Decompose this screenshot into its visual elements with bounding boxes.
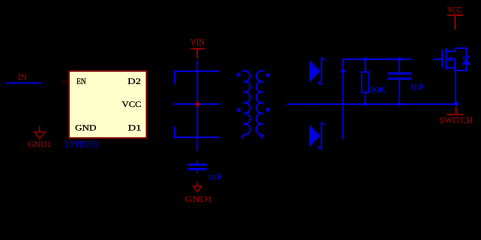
junction top rail at R	[363, 57, 368, 62]
transistor Q1 drain stub	[446, 48, 455, 51]
svg-text:10K: 10K	[370, 84, 387, 94]
pin D1	[128, 124, 141, 133]
wire left stub top	[174, 71, 176, 84]
transistor Q1 gate bar	[441, 50, 443, 68]
transistor Q1 source arrow	[447, 56, 452, 61]
wire IN net	[6, 82, 42, 84]
port SWITCH	[440, 107, 474, 125]
net label IN	[18, 72, 27, 82]
transistor Q1 P-MOSFET gate lead	[433, 58, 442, 60]
svg-text:LTP850X: LTP850X	[65, 140, 99, 150]
pin D2	[128, 77, 141, 86]
polarity dot primary top	[237, 73, 241, 77]
svg-text:VCC: VCC	[122, 100, 142, 109]
power VCC	[447, 4, 463, 30]
svg-text:D2: D2	[128, 77, 141, 86]
svg-text:D1: D1	[128, 124, 141, 133]
polarity dot secondary top	[266, 73, 270, 77]
label 1uF	[207, 171, 222, 181]
svg-text:SWITCH: SWITCH	[440, 115, 474, 125]
wire vertical rectifier rail	[342, 58, 344, 139]
junction top rail at C	[397, 57, 402, 62]
junction rectifier rail	[340, 68, 346, 74]
wire cap-network middle horizontal	[174, 103, 220, 105]
transformer T1 secondary winding	[256, 71, 264, 138]
resistor R 10K	[362, 59, 369, 104]
wire bottom rail	[287, 103, 458, 105]
label 1nF	[410, 81, 424, 91]
transistor Q1 channel bar	[445, 48, 447, 70]
capacitor C 1uF (bottom)	[188, 161, 207, 174]
power VIN	[190, 38, 205, 59]
polarity dot primary mid	[237, 108, 241, 112]
IC U1 body	[69, 71, 147, 138]
wire VIN vertical rail	[196, 60, 198, 150]
junction bottom rail at R	[363, 102, 368, 107]
label 10K	[370, 84, 387, 94]
svg-text:1uF: 1uF	[207, 171, 222, 181]
wire top rail (gate)	[343, 58, 411, 60]
svg-text:EN: EN	[77, 77, 87, 86]
junction bottom rail at C	[397, 102, 402, 107]
junction bottom rail at SWITCH	[453, 101, 459, 107]
ground GND1 (left)	[28, 126, 52, 149]
capacitor 1nF	[387, 59, 411, 104]
svg-text:GND: GND	[75, 124, 96, 133]
svg-text:IN: IN	[18, 72, 27, 82]
wire cap-network top horizontal	[174, 70, 220, 72]
transistor Q1 body zener diode	[462, 56, 471, 64]
transistor Q1 drain-source loop	[455, 48, 467, 70]
junction on VIN rail (red)	[195, 101, 201, 107]
pin EN	[62, 77, 86, 86]
svg-text:GND1: GND1	[185, 194, 213, 204]
diode bottom (schottky)	[309, 123, 324, 149]
svg-text:VCC: VCC	[447, 4, 462, 14]
diode top (schottky)	[309, 58, 324, 84]
pin VCC	[122, 100, 142, 109]
wire source to switch	[455, 70, 457, 103]
svg-text:GND1: GND1	[28, 139, 52, 149]
svg-text:VIN: VIN	[190, 38, 205, 48]
polarity dot secondary mid	[266, 108, 270, 112]
transformer T1 primary winding	[241, 71, 250, 138]
svg-text:1nF: 1nF	[410, 81, 424, 91]
transistor Q1 source lead	[452, 59, 455, 70]
wire cap-network bottom horizontal	[174, 136, 220, 138]
label LTP850X	[65, 140, 99, 150]
ground GND1 (bottom)	[185, 182, 213, 204]
pin GND	[75, 124, 96, 133]
transistor Q1 bulk stub	[446, 67, 455, 69]
wire left stub bottom	[174, 127, 176, 138]
